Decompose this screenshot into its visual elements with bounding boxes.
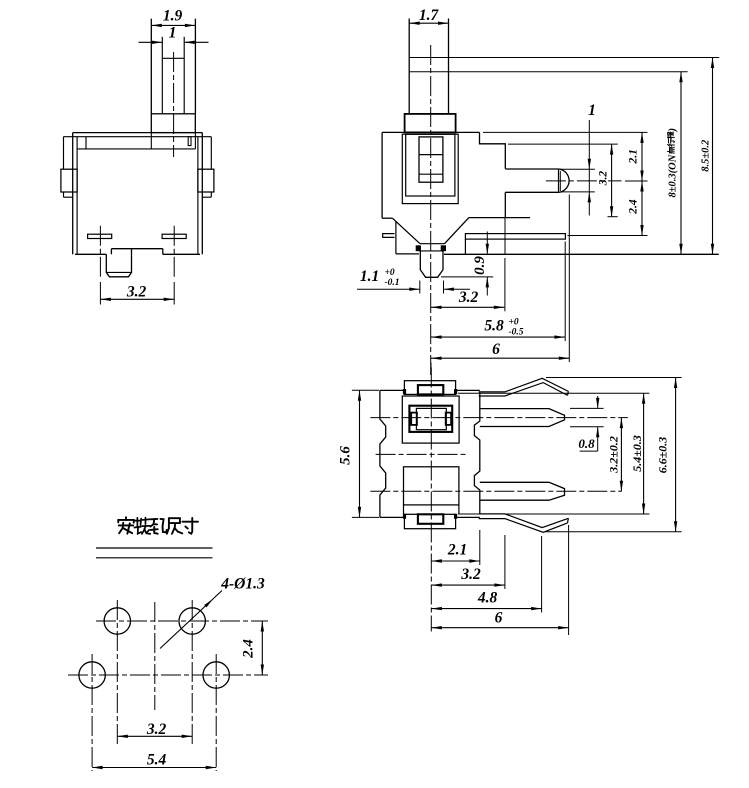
side view: dim 2.1 vertical line [641, 132, 643, 181]
front view: right pin dim extension [173, 282, 175, 305]
bottom view: lower terminal pin [480, 482, 565, 500]
side view: dim 0.9 extension from pin bottom [441, 276, 493, 278]
bottom view: body right edge with recesses [474, 391, 479, 514]
mounting view: vertical center line [154, 602, 156, 710]
bottom view: upper pin center line [370, 417, 628, 419]
side view: pin width leader line [588, 120, 590, 216]
svg-text:+0: +0 [509, 318, 519, 328]
svg-text:5.4: 5.4 [147, 752, 167, 769]
bottom view: stem pocket left bracket [411, 413, 417, 425]
side view: body right edge below tab [504, 192, 506, 217]
bottom view: extension from arm bend [504, 535, 506, 589]
bottom view: dim 2.1 line [431, 560, 480, 562]
bottom view: lower block square [404, 467, 459, 505]
bottom view: dim 0.8 leader underline [580, 450, 598, 452]
side view: plunger body [419, 137, 443, 182]
front view: body left outer wall [72, 133, 74, 255]
front view: body outer top edge [73, 132, 203, 134]
side view: dim 0.9 lower arrow [486, 277, 488, 296]
svg-text:3.2: 3.2 [146, 721, 167, 738]
side view: funnel right diagonal [445, 218, 469, 244]
side view: bar bottom extension for dim 2.4 [568, 235, 648, 237]
bottom view: dim 3.2 line [431, 584, 505, 586]
bottom view: extension from arm apex [541, 536, 543, 613]
svg-text:+0: +0 [385, 268, 395, 278]
svg-text:6: 6 [495, 610, 503, 627]
bottom view: dim 0.8 bottom extension [570, 426, 604, 428]
side view: pin width arrows [588, 159, 591, 170]
bottom view: lower pin center line [370, 490, 621, 492]
side view: dim 3.2 extension [504, 258, 506, 311]
front view: left terminal pin bar [88, 234, 112, 238]
side view: pin top extension [560, 168, 595, 170]
front view: cover band notch [188, 137, 191, 146]
side view: body top edge [382, 131, 479, 133]
bottom view: dim 6.6±0.3 line [675, 378, 677, 532]
mounting view: dim 2.4 line [261, 621, 263, 675]
front view: body bottom edge left part [75, 253, 106, 255]
side view: funnel left diagonal [392, 218, 420, 244]
side view: dim 2.4 vertical line [641, 181, 643, 236]
mounting view: hole callout leader [160, 591, 222, 649]
front view: bottom boss chamfer line [106, 271, 131, 273]
front view: right mounting ear [198, 169, 214, 192]
side view: right rubber seal mark [441, 245, 446, 251]
side view: terminal bar [465, 234, 565, 240]
svg-text:3.2: 3.2 [458, 289, 479, 306]
side view: free position level line [409, 57, 719, 59]
svg-text:5.6: 5.6 [338, 446, 354, 465]
mounting view: top-left hole vertical line [116, 600, 118, 744]
side view: funnel floor [420, 243, 445, 245]
bottom view: bottom boss slot [418, 514, 443, 524]
svg-text:4-Ø1.3: 4-Ø1.3 [220, 576, 265, 593]
svg-text:1.1: 1.1 [360, 268, 379, 285]
bottom view: body top shoulder [380, 389, 405, 391]
front view: stem inner walls [161, 37, 163, 114]
side view: bottom right shelf [469, 217, 530, 219]
front view: right pin center line [173, 226, 175, 278]
side view: center extension to bottom dims [430, 363, 432, 376]
bottom view: upper terminal pin [480, 409, 565, 427]
bottom view: body bottom shoulder [380, 516, 405, 518]
mounting view: dim 3.2 line [117, 735, 192, 737]
mounting view: hole bottom-right [203, 662, 229, 688]
svg-text:4.8: 4.8 [477, 590, 498, 607]
front view: dim 1.9 line with arrows [151, 24, 195, 26]
front view: left pin center line [99, 226, 101, 278]
svg-text:3.2: 3.2 [126, 284, 147, 301]
bottom view: bottom spring arm lower line [479, 519, 568, 533]
side view: dim 8±0.3 line [680, 72, 682, 255]
svg-text:3.2: 3.2 [460, 566, 481, 583]
mounting view: title text 安装孔尺寸 [118, 517, 133, 534]
mounting view: bottom-right hole vertical line [215, 654, 217, 771]
svg-text:8±0.3(ON: 8±0.3(ON [668, 154, 679, 197]
side view: dim 5.8 extension [564, 242, 566, 342]
side view: support block left edge [464, 239, 466, 254]
front view: left ear tab lines [63, 137, 65, 170]
front view: body right inner wall [197, 137, 199, 255]
mounting view: top-right hole vertical line [191, 600, 193, 744]
front view: stem base side lines into band [150, 133, 152, 149]
mounting view: top holes center line [96, 620, 268, 622]
side view: right tab round end [559, 169, 570, 192]
bottom view: stem pocket inner square [416, 408, 446, 429]
bottom view: dim 5.4±0.3 line [643, 393, 645, 514]
front view: cover band tick [85, 137, 87, 149]
mounting view: dim 5.4 line [92, 767, 216, 769]
side view: pocket outer wall [402, 134, 458, 203]
bottom view: extension from arm end [568, 525, 570, 635]
svg-text:1.9: 1.9 [163, 8, 183, 25]
mounting view: hole top-left [104, 608, 130, 634]
svg-text:8.5±0.2: 8.5±0.2 [701, 139, 712, 172]
side view: left tab [383, 234, 395, 238]
bottom view: view vertical center line [430, 368, 432, 632]
front view: body right outer wall [201, 133, 203, 255]
side view: pin bottom extension [560, 191, 595, 193]
front view: bottom step verticals [110, 249, 112, 255]
svg-text:5.8: 5.8 [484, 318, 504, 335]
side view: seating plane line left [396, 253, 419, 255]
side view: right tab chord line [558, 169, 560, 192]
side view: movable pin outline [420, 246, 443, 278]
side view: right tab center cross vertical [559, 171, 561, 191]
side view: dim 8.5±0.2 line [712, 58, 714, 255]
side view: body top step [480, 132, 506, 168]
front view: bottom step line [111, 248, 162, 250]
side view: body top extension for dim 2.1 [483, 131, 648, 133]
front view: bottom boss outline [106, 249, 131, 277]
svg-text:1.7: 1.7 [419, 7, 440, 24]
bottom view: bottom boss outline [404, 514, 455, 528]
front view: left mounting ear [61, 169, 77, 192]
bottom view: dim 4.8 line [431, 608, 541, 610]
svg-text:2.4: 2.4 [628, 199, 640, 215]
front view: right terminal pin bar [162, 234, 186, 238]
side view: ON point level line [409, 71, 687, 73]
side view: pocket inner wall [406, 134, 455, 196]
side view: lower extension for dim 3.2 vertical [608, 216, 618, 218]
bottom view: dim 6 line [431, 627, 568, 629]
bottom view: dim 0.8 top extension [570, 407, 604, 409]
svg-text:0.8: 0.8 [578, 436, 595, 451]
svg-text:1: 1 [169, 25, 177, 42]
bottom view: extension from body right edge [479, 530, 481, 565]
bottom view: top spring arm upper line [479, 378, 569, 392]
svg-text:2.1: 2.1 [628, 149, 640, 164]
bottom view: top spring arm lower line [479, 383, 568, 396]
svg-text:1: 1 [588, 102, 596, 119]
bottom view: bottom boss corner marks [403, 514, 406, 519]
side view: dim 1.1 extension lines [419, 281, 421, 294]
side view: stem center line [430, 45, 432, 375]
side view: plunger mid line [419, 154, 443, 156]
side view: dim 1.7 line with arrows [409, 22, 448, 24]
bottom view: dim 5.4 extensions [458, 392, 649, 394]
svg-text:2.1: 2.1 [447, 542, 467, 559]
side view: dim 3.2 vertical line [611, 144, 613, 217]
side view: seating plane line right [444, 253, 719, 255]
side view: center level tick [625, 180, 648, 182]
bottom view: stem pocket mid square [409, 406, 452, 432]
bottom view: view horizontal center line [376, 453, 467, 455]
svg-text:6.6±0.3: 6.6±0.3 [656, 437, 670, 474]
svg-text:): ) [668, 128, 679, 133]
front view: body inner top edge [63, 136, 211, 138]
bottom view: dim 0.8 arrows [597, 396, 599, 408]
side view: right tab center cross horizontal [546, 180, 622, 182]
front view: body left inner wall [76, 137, 78, 255]
svg-text:3.2±0.2: 3.2±0.2 [607, 436, 621, 474]
side view: body left edge [381, 132, 383, 218]
mounting view: hole top-right [179, 608, 205, 634]
side view: step extension for dim 3.2 vertical [508, 143, 618, 145]
mounting view: hole bottom-left [79, 662, 105, 688]
side view: plunger foot line [419, 173, 443, 175]
side view: stem walls [408, 19, 410, 114]
svg-text:2.4: 2.4 [241, 639, 257, 659]
svg-text:0.9: 0.9 [472, 256, 488, 275]
svg-text:-0.1: -0.1 [385, 278, 400, 288]
bottom view: stem pocket right bracket [446, 413, 451, 425]
side view: stem collar [405, 114, 456, 132]
side view: support block right edge [504, 218, 506, 255]
bottom view: bottom spring arm upper line [479, 514, 569, 528]
bottom view: top boss outline [404, 381, 455, 395]
bottom view: lower block side walls [403, 505, 405, 514]
bottom view: body left edge with recesses [380, 390, 386, 517]
bottom view: top boss slot [418, 385, 443, 394]
side view: funnel block left wall [395, 222, 397, 254]
bottom view: dim 5.6 extensions [352, 389, 379, 391]
front view: dim 1 line with outside arrows [139, 41, 163, 43]
bottom view: dim 5.6 line [359, 390, 361, 517]
side view: bottom left step [382, 217, 392, 219]
front view: stem outer walls [150, 19, 152, 114]
mounting view: bottom-left hole vertical line [91, 654, 93, 771]
front view: left pin dim extension [99, 282, 101, 305]
side view: right tab bottom edge [505, 191, 558, 193]
svg-text:6: 6 [492, 341, 500, 358]
svg-text:5.4±0.3: 5.4±0.3 [630, 435, 644, 472]
svg-text:3.2: 3.2 [598, 171, 610, 187]
side view: dim 6 line [431, 357, 569, 359]
front view: body bottom edge right part [163, 253, 200, 255]
side view: dim 0.9 upper arrow [486, 232, 488, 255]
front view: stem base block [151, 114, 195, 133]
bottom view: stem pocket outer square [402, 396, 459, 443]
side view: dim 6 extension [568, 195, 570, 363]
mounting view: title underline 2 [96, 557, 213, 559]
bottom view: dim 6.6 extensions [546, 377, 682, 379]
front view: right ear tab lines [210, 137, 212, 170]
front view: cover band bottom line [77, 148, 195, 150]
bottom view: top spring arm end cap [567, 391, 570, 395]
side view: right tab top edge [505, 168, 558, 170]
front view: stem inner top line [162, 57, 184, 59]
bottom view: top boss corner marks [403, 389, 406, 394]
side view: pin top line [420, 250, 443, 252]
side view: dim 3.2 line [431, 306, 504, 308]
side view: dim 5.8 line [431, 336, 565, 338]
front view: stem center line [173, 52, 175, 157]
side view: left rubber seal mark [416, 245, 421, 251]
bottom view: bottom spring arm end cap [567, 518, 570, 523]
mounting view: title underline 1 [96, 547, 213, 549]
front view: dim 3.2 line with arrows [100, 298, 174, 300]
bottom view: dim 3.2±0.2 line [620, 418, 622, 492]
svg-text:-0.5: -0.5 [509, 328, 524, 338]
side view: dim 1.1 arrows [357, 288, 420, 290]
mounting view: bottom holes center line [68, 674, 268, 676]
